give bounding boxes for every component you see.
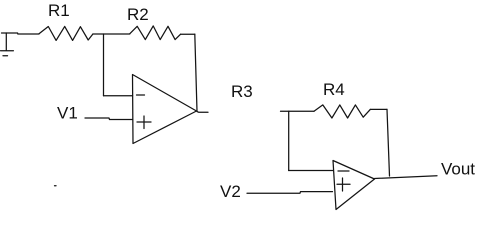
svg-text:R2: R2 (127, 5, 149, 24)
svg-text:V2: V2 (220, 182, 241, 201)
svg-text:R3: R3 (231, 82, 253, 101)
svg-text:R1: R1 (48, 1, 70, 20)
svg-text:Vout: Vout (441, 160, 475, 179)
svg-text:R4: R4 (323, 80, 345, 99)
svg-text:V1: V1 (57, 104, 78, 123)
